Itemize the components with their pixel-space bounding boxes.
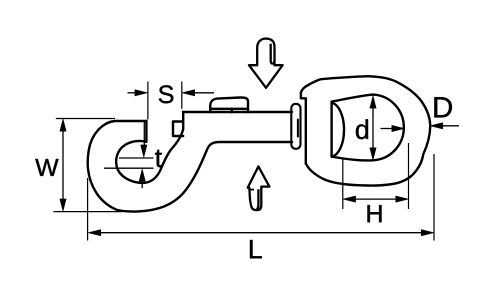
d label xyxy=(356,119,368,139)
up arrow fold line xyxy=(256,189,258,209)
S label xyxy=(159,85,174,103)
collar dash xyxy=(297,120,299,137)
dimension L xyxy=(88,154,434,241)
eye boss edge xyxy=(301,93,306,164)
t down arrow shaft xyxy=(143,121,145,147)
gate front, inner bowl and tip curl xyxy=(116,112,183,183)
dimension H xyxy=(343,143,409,209)
W top tick line xyxy=(56,118,115,120)
t up arrow shaft xyxy=(141,180,143,188)
swivel eye outer outline xyxy=(301,76,430,185)
dimension t xyxy=(104,121,154,188)
W bottom tick line xyxy=(54,211,122,213)
down block arrow xyxy=(249,39,283,88)
L dimension line xyxy=(99,232,423,234)
d vertical arrow shaft xyxy=(372,106,374,150)
t down arrowhead xyxy=(141,145,147,158)
dimension S xyxy=(128,82,215,120)
S left arrow shaft xyxy=(128,92,137,94)
S right arrow shaft xyxy=(193,92,214,94)
H left arrowhead xyxy=(343,196,356,202)
W top arrowhead xyxy=(60,119,66,132)
hook outer outline xyxy=(88,121,292,212)
D label xyxy=(434,97,452,117)
d horizontal arrow shaft xyxy=(381,128,395,130)
up arrow top tick xyxy=(249,189,254,191)
L label xyxy=(250,240,262,258)
gate tab xyxy=(173,122,183,137)
W label xyxy=(35,159,58,176)
knob base tick xyxy=(231,109,233,113)
t label xyxy=(155,150,162,167)
down arrow fold line xyxy=(271,44,275,64)
D arrow shaft xyxy=(441,125,459,127)
t lower ref line xyxy=(104,167,154,169)
S right extension line xyxy=(181,82,183,109)
t upper ref line xyxy=(119,157,154,159)
slide knob xyxy=(210,97,248,112)
L left arrowhead xyxy=(88,230,101,236)
S right arrowhead xyxy=(182,90,195,96)
S left arrowhead xyxy=(135,90,148,96)
t up arrowhead xyxy=(139,169,145,182)
W arrow shaft xyxy=(62,130,64,201)
L left extension line xyxy=(87,178,89,241)
eye inner hole xyxy=(332,95,404,161)
H right extension line xyxy=(408,143,410,209)
bolt head inside eye xyxy=(332,103,344,157)
swivel collar capsule xyxy=(291,104,300,149)
knob base line xyxy=(210,108,248,110)
W bottom arrowhead xyxy=(60,199,66,212)
S left extension line xyxy=(147,82,149,120)
H label xyxy=(368,205,382,222)
H dimension line xyxy=(353,198,398,200)
L right arrowhead xyxy=(421,230,434,236)
dimension W xyxy=(54,119,122,212)
H left extension line xyxy=(342,159,344,209)
up block arrow xyxy=(248,166,270,210)
body top edge xyxy=(183,111,292,113)
dimension d xyxy=(373,106,394,150)
D left arrowhead xyxy=(430,123,443,129)
d right arrowhead xyxy=(392,125,405,131)
H right arrowhead xyxy=(396,196,409,202)
d up arrowhead xyxy=(370,96,376,109)
L right extension line xyxy=(433,154,435,241)
d down arrowhead xyxy=(370,148,376,161)
